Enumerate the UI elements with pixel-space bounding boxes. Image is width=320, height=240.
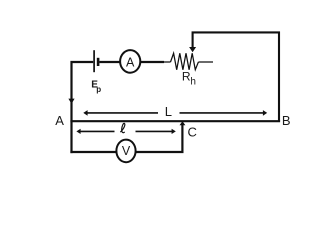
resistor Rh lead right xyxy=(198,61,213,63)
svg-text:L: L xyxy=(165,104,172,119)
resistor Rh lead left xyxy=(163,61,171,63)
wire current-direction arrowhead on left vertical xyxy=(68,99,74,104)
wire left vertical with top-left corner xyxy=(72,62,94,153)
label l (script ell) xyxy=(121,123,125,132)
dimension l left arrow xyxy=(80,130,115,132)
svg-text:p: p xyxy=(96,85,101,94)
svg-text:V: V xyxy=(122,144,131,158)
svg-text:C: C xyxy=(188,124,197,139)
jockey arrowhead at C pointing up xyxy=(180,121,186,125)
battery Ep long plate xyxy=(93,50,95,72)
svg-text:h: h xyxy=(190,77,196,88)
wire wiper up, top wire, right vertical down to B xyxy=(193,32,279,121)
svg-text:A: A xyxy=(126,55,135,69)
wire C vertical down and bottom wire to left xyxy=(70,125,182,152)
battery Ep short plate xyxy=(97,58,100,66)
dimension L left arrow xyxy=(87,112,158,114)
dimension L right arrow xyxy=(180,112,264,114)
rheostat wiper arrowhead xyxy=(189,47,196,52)
svg-text:B: B xyxy=(282,113,291,128)
wire ammeter to rheostat xyxy=(140,61,164,63)
voltmeter V xyxy=(116,140,135,163)
wire A to B xyxy=(70,120,280,122)
dimension l right arrow xyxy=(136,130,173,132)
wire battery to ammeter xyxy=(99,61,120,63)
svg-text:A: A xyxy=(55,113,64,128)
ammeter A xyxy=(120,50,140,73)
resistor Rh zigzag xyxy=(171,53,199,69)
